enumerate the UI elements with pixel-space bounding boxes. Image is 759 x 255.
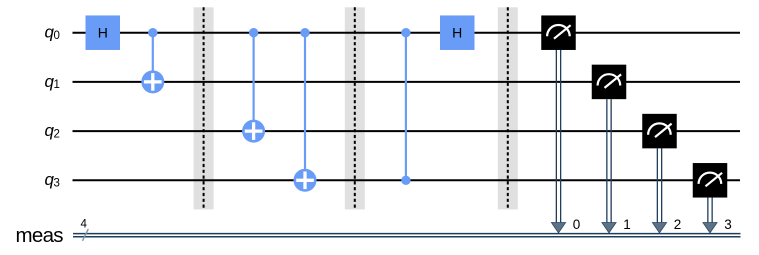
svg-text:H: H: [452, 25, 462, 41]
qubit label q3: [45, 170, 60, 189]
barrier B1: [194, 7, 214, 209]
arrowhead: [602, 223, 616, 233]
measure M1 q1 to meas bit 1: [592, 65, 631, 233]
barrier B2: [345, 7, 365, 209]
gauge needle: [655, 124, 672, 138]
cz gate control q0 control q3: [401, 28, 410, 185]
hadamard gate H (first) on q0: [86, 15, 121, 50]
cnot CX control q0 target q1: [141, 28, 164, 93]
svg-text:meas: meas: [16, 224, 64, 247]
wire q0: [73, 32, 741, 34]
control dot q0: [401, 28, 410, 37]
measure M3 q3 to meas bit 3: [693, 163, 732, 233]
measure M0 q0 to meas bit 0: [541, 15, 580, 232]
arrowhead: [551, 223, 565, 233]
gauge arc: [699, 173, 722, 184]
control dot q0: [148, 28, 157, 37]
arrowhead: [703, 223, 717, 233]
barrier B3: [498, 7, 518, 209]
measure box: [592, 65, 627, 100]
gauge arc: [598, 74, 621, 85]
wire q1: [73, 81, 741, 83]
wire cx1 vertical: [152, 33, 154, 82]
control dot q3: [401, 176, 410, 185]
measure box: [642, 114, 677, 149]
control dot q0: [249, 28, 258, 37]
hadamard gate H (second) on q0: [440, 15, 475, 50]
arrowhead: [652, 223, 666, 233]
wire q2: [73, 130, 741, 132]
svg-text:H: H: [98, 25, 108, 41]
classical double line to creg: [555, 50, 557, 224]
wire cx2 vertical: [253, 33, 255, 131]
target plus q1: [141, 70, 164, 93]
qubit label q1: [45, 72, 60, 91]
wire q3: [73, 179, 741, 181]
target plus q3: [294, 169, 317, 192]
measure M2 q2 to meas bit 2: [642, 114, 681, 233]
classical double line to creg: [606, 99, 608, 224]
measure box: [541, 15, 576, 50]
classical double line to creg: [707, 198, 709, 224]
svg-text:0: 0: [54, 30, 60, 42]
wire cz vertical: [405, 33, 407, 181]
cnot CX control q0 target q3: [294, 28, 317, 192]
cnot CX control q0 target q2: [242, 28, 265, 143]
wire cx3 vertical: [304, 33, 306, 181]
svg-text:2: 2: [54, 128, 60, 140]
qubit label q0: [45, 23, 60, 42]
svg-text:1: 1: [623, 217, 631, 232]
qubit label q2: [45, 121, 60, 140]
control dot q0: [300, 28, 309, 37]
svg-text:4: 4: [81, 219, 88, 231]
svg-text:3: 3: [54, 178, 60, 190]
gauge arc: [547, 25, 570, 36]
svg-text:1: 1: [54, 79, 60, 91]
svg-text:0: 0: [573, 217, 581, 232]
svg-text:2: 2: [674, 217, 682, 232]
gauge arc: [648, 123, 671, 134]
classical double line to creg: [656, 148, 658, 224]
gauge needle: [706, 173, 723, 187]
classical wire meas (double line): [73, 234, 741, 237]
target plus q2: [242, 120, 265, 143]
gauge needle: [554, 25, 571, 39]
svg-text:3: 3: [724, 217, 732, 232]
classical register width label 4 with slash: [81, 219, 89, 241]
gauge needle: [605, 74, 622, 88]
measure box: [693, 163, 728, 198]
